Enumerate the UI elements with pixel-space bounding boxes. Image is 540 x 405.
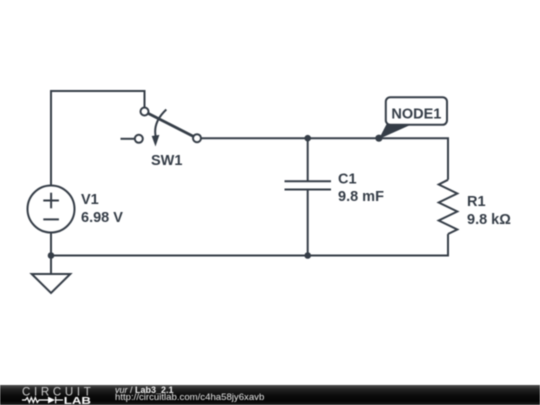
footer title text	[115, 385, 415, 405]
svg-text:9.8 mF: 9.8 mF	[338, 189, 384, 205]
svg-text:9.8 kΩ: 9.8 kΩ	[467, 212, 511, 228]
capacitor C1	[285, 138, 385, 255]
wire bottom rail	[51, 233, 448, 256]
svg-text:LAB: LAB	[64, 395, 92, 405]
junction dot ground node	[48, 252, 55, 259]
svg-text:C1: C1	[338, 172, 357, 188]
svg-text:R1: R1	[467, 194, 486, 210]
svg-text:V1: V1	[81, 192, 99, 208]
resistor R1	[439, 180, 512, 234]
ground	[32, 256, 71, 294]
footer bar	[0, 385, 540, 405]
wire top-left from V1 to switch pivot	[51, 91, 145, 186]
junction dot capacitor bottom	[304, 252, 311, 259]
switch SW1	[121, 108, 202, 170]
wire top-right from switch to resistor branch corner	[201, 138, 448, 180]
svg-text:SW1: SW1	[151, 153, 182, 169]
junction dot capacitor top	[304, 135, 311, 142]
voltage source V1	[28, 186, 124, 233]
node NODE1 anchor dot	[375, 135, 382, 142]
NODE1 flag	[379, 97, 447, 139]
CircuitLab logo	[22, 386, 94, 405]
svg-text:NODE1: NODE1	[391, 106, 441, 122]
svg-text:6.98 V: 6.98 V	[81, 210, 123, 226]
